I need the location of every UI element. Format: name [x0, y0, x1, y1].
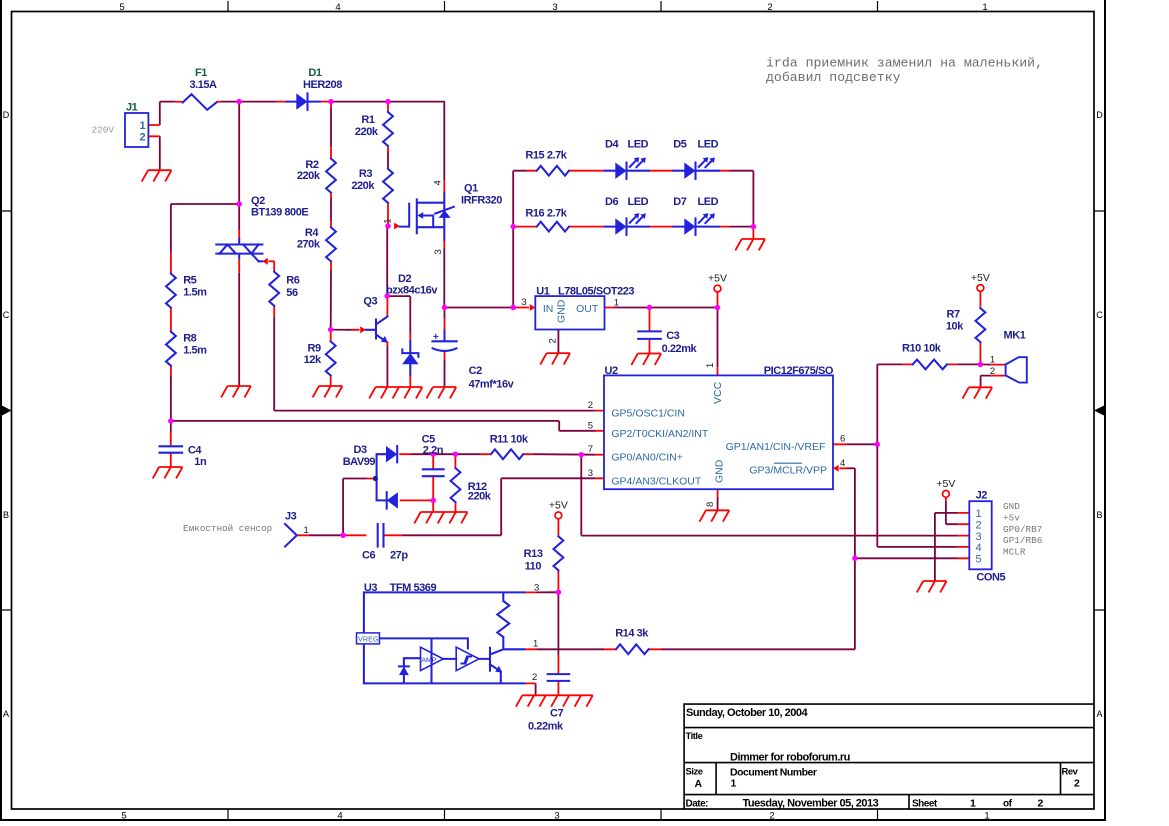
- svg-text:2: 2: [588, 400, 593, 411]
- svg-text:OUT: OUT: [576, 303, 599, 315]
- svg-text:270k: 270k: [297, 239, 321, 251]
- svg-text:J3: J3: [285, 511, 297, 523]
- svg-text:R3: R3: [359, 168, 372, 180]
- svg-text:1.5m: 1.5m: [183, 345, 207, 357]
- svg-text:BT139 800E: BT139 800E: [251, 207, 308, 219]
- svg-text:47mf*16v: 47mf*16v: [469, 378, 515, 390]
- svg-text:R7: R7: [947, 309, 960, 321]
- svg-text:+5V: +5V: [971, 272, 990, 284]
- svg-text:GND: GND: [1003, 501, 1020, 512]
- svg-text:AMP: AMP: [422, 657, 437, 664]
- svg-text:3: 3: [433, 249, 444, 254]
- svg-text:LED: LED: [698, 139, 719, 151]
- svg-text:GP1/AN1/CIN-/VREF: GP1/AN1/CIN-/VREF: [726, 441, 826, 453]
- svg-text:D4: D4: [605, 139, 619, 151]
- svg-text:Tuesday, November 05, 2013: Tuesday, November 05, 2013: [743, 798, 879, 810]
- svg-text:PIC12F675/SO: PIC12F675/SO: [764, 365, 834, 377]
- svg-text:2: 2: [975, 519, 981, 531]
- svg-text:of: of: [1003, 799, 1013, 810]
- svg-text:2: 2: [1074, 778, 1080, 790]
- svg-text:1: 1: [533, 638, 538, 649]
- svg-text:220V: 220V: [92, 125, 115, 136]
- svg-text:1: 1: [970, 798, 976, 810]
- svg-text:7: 7: [588, 444, 593, 455]
- svg-text:R9: R9: [308, 343, 321, 355]
- svg-text:LED: LED: [628, 196, 649, 208]
- svg-text:VCC: VCC: [712, 381, 724, 404]
- svg-text:U3: U3: [364, 582, 377, 594]
- svg-text:+5v: +5v: [1003, 512, 1020, 523]
- svg-text:C2: C2: [469, 365, 482, 377]
- svg-text:D: D: [3, 110, 10, 120]
- svg-text:4: 4: [335, 2, 340, 13]
- svg-text:GP4/AN3/CLKOUT: GP4/AN3/CLKOUT: [611, 475, 701, 487]
- svg-text:GP3/MCLR/VPP: GP3/MCLR/VPP: [749, 464, 827, 476]
- svg-text:D2: D2: [398, 273, 411, 285]
- svg-text:1n: 1n: [194, 456, 207, 468]
- svg-text:IRFR320: IRFR320: [461, 195, 502, 207]
- svg-text:R11 10k: R11 10k: [490, 434, 529, 446]
- svg-text:Size: Size: [686, 767, 703, 778]
- svg-text:D3: D3: [354, 444, 367, 456]
- svg-text:2.2n: 2.2n: [423, 445, 444, 457]
- svg-text:1: 1: [705, 363, 716, 368]
- svg-text:2: 2: [990, 366, 995, 377]
- svg-text:3: 3: [552, 2, 557, 13]
- svg-text:220k: 220k: [468, 491, 492, 503]
- svg-text:Rev: Rev: [1062, 767, 1079, 778]
- svg-text:D7: D7: [673, 196, 686, 208]
- svg-text:GP5/OSC1/CIN: GP5/OSC1/CIN: [611, 408, 685, 420]
- svg-text:C: C: [1096, 310, 1103, 320]
- svg-text:C: C: [3, 310, 10, 320]
- svg-text:1: 1: [984, 811, 989, 822]
- svg-text:220k: 220k: [297, 170, 321, 182]
- svg-text:GND: GND: [714, 459, 726, 483]
- svg-text:3.15A: 3.15A: [189, 79, 217, 91]
- svg-text:2: 2: [769, 811, 774, 822]
- svg-text:R16 2.7k: R16 2.7k: [525, 207, 567, 219]
- svg-text:VREG: VREG: [358, 635, 379, 644]
- svg-text:B: B: [3, 510, 9, 520]
- svg-text:+5V: +5V: [936, 478, 955, 490]
- svg-text:+5V: +5V: [708, 273, 727, 285]
- svg-text:R6: R6: [286, 275, 299, 287]
- svg-text:U1: U1: [536, 285, 549, 297]
- svg-text:R15 2.7k: R15 2.7k: [525, 150, 567, 162]
- svg-text:2: 2: [548, 338, 559, 343]
- svg-text:5: 5: [975, 554, 981, 566]
- svg-text:C3: C3: [666, 330, 679, 342]
- svg-text:1: 1: [383, 218, 394, 223]
- svg-text:R5: R5: [183, 275, 196, 287]
- svg-text:R13: R13: [524, 548, 543, 560]
- svg-text:R8: R8: [183, 333, 196, 345]
- svg-text:R14 3k: R14 3k: [615, 627, 649, 639]
- svg-text:1.5m: 1.5m: [183, 287, 207, 299]
- svg-text:F1: F1: [195, 67, 207, 79]
- svg-text:Dimmer for roboforum.ru: Dimmer for roboforum.ru: [730, 752, 850, 764]
- svg-text:5: 5: [121, 811, 126, 822]
- svg-text:LED: LED: [698, 196, 719, 208]
- svg-text:1: 1: [304, 525, 309, 536]
- svg-text:CON5: CON5: [976, 572, 1005, 584]
- svg-text:J2: J2: [976, 490, 988, 502]
- svg-text:1: 1: [975, 508, 981, 520]
- svg-text:1: 1: [990, 354, 995, 365]
- svg-text:5: 5: [588, 420, 593, 431]
- svg-text:GP2/T0CKI/AN2/INT: GP2/T0CKI/AN2/INT: [611, 428, 708, 440]
- svg-text:2: 2: [1038, 798, 1044, 810]
- svg-text:6: 6: [840, 434, 845, 445]
- svg-text:Емкостной сенсор: Емкостной сенсор: [183, 523, 272, 534]
- svg-text:LED: LED: [628, 139, 649, 151]
- svg-text:220k: 220k: [351, 180, 375, 192]
- svg-text:MCLR: MCLR: [1003, 547, 1026, 558]
- svg-text:GP1/RB6: GP1/RB6: [1003, 535, 1043, 546]
- svg-text:Title: Title: [686, 731, 703, 742]
- svg-text:1: 1: [614, 297, 619, 308]
- svg-text:GP0/RB7: GP0/RB7: [1003, 524, 1042, 535]
- svg-text:3: 3: [521, 297, 526, 308]
- svg-text:Q1: Q1: [464, 183, 478, 195]
- svg-text:4: 4: [433, 180, 444, 185]
- svg-text:D1: D1: [308, 67, 321, 79]
- svg-text:A: A: [3, 709, 9, 719]
- svg-text:BAV99: BAV99: [343, 456, 376, 468]
- svg-text:+5V: +5V: [549, 499, 568, 511]
- svg-text:3: 3: [975, 531, 981, 543]
- svg-text:D: D: [1096, 110, 1103, 120]
- svg-text:Q3: Q3: [363, 295, 377, 307]
- svg-text:2: 2: [140, 132, 146, 144]
- svg-text:4: 4: [337, 811, 342, 822]
- svg-text:C6: C6: [362, 550, 375, 562]
- svg-text:добавил подсветку: добавил подсветку: [766, 70, 901, 85]
- svg-text:GND: GND: [556, 299, 568, 323]
- svg-text:J1: J1: [126, 102, 138, 114]
- svg-text:MK1: MK1: [1004, 330, 1026, 342]
- svg-text:D5: D5: [673, 139, 686, 151]
- svg-text:Q2: Q2: [251, 195, 265, 207]
- svg-text:U2: U2: [605, 365, 618, 377]
- svg-text:1: 1: [140, 120, 146, 132]
- svg-text:+: +: [433, 332, 439, 343]
- svg-text:Date:: Date:: [686, 799, 709, 810]
- svg-text:C7: C7: [550, 708, 563, 720]
- svg-text:12k: 12k: [304, 354, 322, 366]
- svg-text:2: 2: [767, 2, 772, 13]
- svg-text:10k: 10k: [946, 320, 964, 332]
- svg-text:Document Number: Document Number: [730, 767, 817, 779]
- svg-text:5: 5: [119, 2, 124, 13]
- svg-text:3: 3: [554, 811, 559, 822]
- svg-text:B: B: [1096, 510, 1102, 520]
- svg-text:A: A: [1096, 709, 1102, 719]
- svg-text:8: 8: [705, 502, 716, 507]
- svg-text:irda приемник заменил на мален: irda приемник заменил на маленький,: [766, 56, 1043, 71]
- svg-text:3: 3: [534, 583, 539, 594]
- svg-text:bzx84c16v: bzx84c16v: [386, 285, 438, 297]
- svg-text:TFM 5369: TFM 5369: [390, 582, 437, 594]
- svg-text:HER208: HER208: [303, 79, 342, 91]
- svg-text:D6: D6: [605, 196, 618, 208]
- svg-text:Sheet: Sheet: [912, 799, 938, 810]
- svg-text:L78L05/SOT223: L78L05/SOT223: [558, 285, 634, 297]
- svg-text:220k: 220k: [355, 126, 379, 138]
- svg-text:IN: IN: [543, 303, 554, 315]
- svg-text:R4: R4: [305, 227, 319, 239]
- svg-text:110: 110: [525, 561, 542, 573]
- svg-text:0.22mk: 0.22mk: [662, 343, 698, 355]
- svg-text:0.22mk: 0.22mk: [528, 720, 564, 732]
- svg-text:GP0/AN0/CIN+: GP0/AN0/CIN+: [611, 452, 683, 464]
- svg-text:27p: 27p: [390, 550, 408, 562]
- svg-text:R1: R1: [361, 114, 374, 126]
- svg-text:2: 2: [532, 672, 537, 683]
- svg-text:A: A: [695, 778, 703, 790]
- svg-text:C4: C4: [188, 444, 202, 456]
- svg-text:4: 4: [975, 542, 981, 554]
- svg-text:Sunday, October 10, 2004: Sunday, October 10, 2004: [686, 707, 808, 719]
- svg-text:4: 4: [840, 458, 845, 469]
- svg-text:R2: R2: [305, 159, 318, 171]
- svg-text:R10 10k: R10 10k: [902, 343, 942, 355]
- svg-text:56: 56: [286, 287, 298, 299]
- svg-text:3: 3: [588, 468, 593, 479]
- svg-text:1: 1: [731, 778, 737, 790]
- svg-text:1: 1: [982, 2, 987, 13]
